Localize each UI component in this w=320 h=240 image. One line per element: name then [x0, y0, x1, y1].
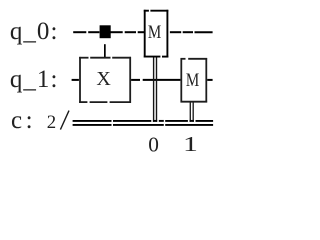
svg-text:c: c — [11, 107, 22, 134]
double classical drop from M (q_0) — [153, 58, 157, 122]
classical wire c (double line), top line — [73, 120, 214, 122]
wire q_0 — [73, 31, 212, 33]
measurement box M (q_0) — [144, 10, 169, 58]
svg-text:1: 1 — [183, 132, 198, 156]
double classical drop from M (q_1) — [190, 103, 194, 122]
svg-text::: : — [26, 107, 33, 134]
svg-text:M: M — [186, 69, 199, 90]
bus-width slash on classical wire — [60, 111, 69, 130]
svg-text:q_1:: q_1: — [10, 66, 58, 93]
svg-text:q_0:: q_0: — [10, 18, 58, 45]
wire: control to X gate vertical connector — [104, 44, 106, 58]
control square on q_0 — [100, 25, 111, 38]
svg-text:2: 2 — [47, 112, 56, 133]
svg-text:0: 0 — [148, 132, 159, 156]
svg-text:M: M — [148, 22, 161, 43]
measurement box M (q_1) — [181, 58, 208, 103]
svg-text:X: X — [96, 68, 111, 90]
X gate box — [79, 57, 131, 103]
classical wire c (double line), bottom line — [73, 124, 214, 126]
wire q_1 — [72, 79, 213, 81]
